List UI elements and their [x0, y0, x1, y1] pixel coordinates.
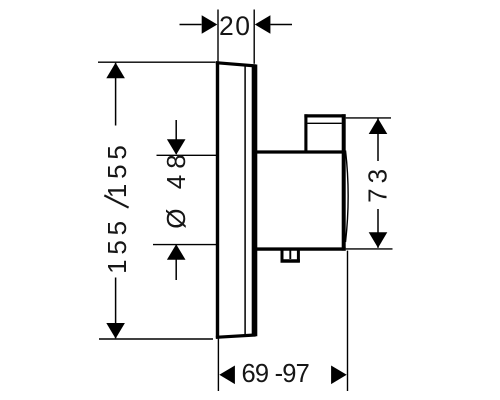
dim 48 upper arrow: [167, 139, 186, 155]
dim 20 left extension line: [217, 10, 219, 62]
dim 69-97 left arrow: [219, 366, 235, 385]
dim 73 text: [362, 164, 392, 203]
stop button left stroke: [281, 249, 284, 262]
handle top edge: [304, 114, 345, 117]
dim 73 lower stem: [377, 209, 379, 248]
handle inner line: [307, 122, 342, 124]
plate bottom edge: [216, 335, 256, 337]
stop button divider: [289, 250, 291, 259]
dim 73 top arrow: [369, 118, 388, 134]
dim 155 bottom arrow: [106, 323, 125, 339]
svg-text:155: 155: [102, 140, 132, 198]
dim 69-97 left extension line: [217, 339, 219, 391]
dim 155 text lower: [102, 216, 132, 274]
svg-text:69 -97: 69 -97: [242, 360, 310, 388]
plate top edge: [216, 63, 256, 66]
dim 20 left tail: [180, 24, 202, 26]
dim 48 upper stem: [175, 120, 177, 154]
dim 48 text: [161, 148, 191, 228]
dim 48 lower arrow: [167, 244, 186, 260]
svg-text:20: 20: [219, 11, 251, 41]
dim 73 bottom extension line: [346, 248, 393, 250]
dim 20 right tail: [270, 24, 292, 26]
dim 69-97 right extension line: [347, 251, 349, 391]
plate front face: [216, 61, 219, 339]
dim 155 top arrow: [106, 63, 125, 79]
stop button right stroke: [297, 249, 300, 262]
dim 155 text: [102, 140, 132, 198]
dim 48 lower stem: [175, 245, 177, 281]
dim 48 upper extension line: [157, 154, 218, 156]
dim 20 left arrow: [202, 15, 218, 34]
body bottom edge: [255, 247, 346, 250]
dim 20 right arrow: [255, 15, 271, 34]
dim 155 bottom extension line: [99, 338, 213, 340]
dim 69-97 right arrow: [331, 366, 347, 385]
svg-text:155: 155: [102, 216, 132, 274]
dim 155 upper stem: [115, 63, 117, 126]
body top edge: [255, 150, 344, 153]
dim 20 right extension line: [253, 10, 255, 64]
dim 73 upper stem: [377, 119, 379, 162]
dim 48 lower extension line: [153, 244, 218, 246]
svg-text:Ø 48: Ø 48: [161, 148, 191, 228]
dim 73 top extension line: [346, 117, 391, 119]
plate inner edge line: [244, 65, 246, 336]
cartridge curve: [346, 151, 349, 243]
plate back face band: [252, 65, 258, 337]
dim 155 top extension line: [98, 61, 216, 63]
svg-text:73: 73: [362, 164, 392, 203]
stop button bottom stroke: [281, 259, 300, 262]
dim 155 slash: [104, 195, 128, 207]
handle left edge: [304, 114, 307, 152]
dim 155 lower stem: [115, 278, 117, 339]
body/handle right edge: [342, 114, 346, 250]
dim 73 bottom arrow: [369, 232, 388, 248]
